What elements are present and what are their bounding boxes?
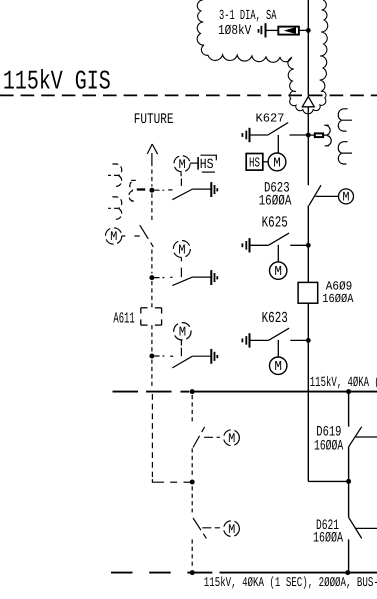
svg-text:HS: HS — [249, 156, 260, 171]
wire to voltage transformer — [308, 134, 327, 136]
disconnect (future feeder lower) — [193, 518, 206, 538]
node: K623 junction — [306, 338, 311, 343]
motor M for K625 — [270, 262, 287, 279]
bus: 115kV main bus — [192, 391, 377, 393]
node: D619/D621 mid node — [346, 479, 351, 484]
future transformer primary winding — [130, 180, 136, 190]
wire: main 115kV line from transformer — [307, 0, 309, 96]
bus: 115kV main bus (future dashed part) — [113, 391, 139, 393]
node: future transformer tap — [149, 188, 154, 193]
future transformer secondary winding 1 — [108, 164, 122, 175]
HS box K627 — [246, 154, 263, 171]
ground (future bay 2) — [210, 270, 212, 285]
ground: surge arrester earth — [265, 23, 267, 37]
motor M (future bay 1) — [174, 156, 190, 172]
svg-text:115kV GIS: 115kV GIS — [3, 68, 111, 98]
disconnect switch K625 — [250, 244, 269, 246]
disconnect (future, in riser) — [140, 225, 154, 247]
motor M (future riser disconnect) — [105, 228, 121, 244]
surge arrester SA 108kV — [278, 29, 308, 31]
svg-text:16ØØA: 16ØØA — [322, 292, 354, 306]
svg-text:115kV, 4ØKA (: 115kV, 4ØKA ( — [310, 375, 377, 391]
motor M for K623 — [270, 357, 287, 374]
svg-text:M: M — [273, 156, 281, 171]
node: K627 junction — [306, 133, 311, 138]
wire: main line crosses bus down to elbow — [307, 392, 309, 482]
disconnect switch K623 — [250, 339, 269, 341]
VT secondary winding 1 — [338, 109, 352, 120]
disconnect (future feeder upper) — [193, 426, 205, 447]
motor M for D623 — [339, 189, 354, 204]
svg-text:A611: A611 — [113, 309, 134, 327]
motor M (future feeder lower) — [224, 521, 240, 537]
svg-text:FUTURE: FUTURE — [134, 112, 174, 128]
svg-text:M: M — [179, 326, 186, 341]
svg-text:K627: K627 — [256, 112, 285, 126]
box A609 1600A — [298, 282, 318, 303]
svg-text:16ØØA: 16ØØA — [314, 439, 343, 455]
svg-text:115kV, 4ØKA (1 SEC), 2ØØØA, BU: 115kV, 4ØKA (1 SEC), 2ØØØA, BUS- — [204, 575, 377, 590]
breaker D621 — [348, 481, 350, 517]
node: future bay 2 tap — [149, 275, 154, 280]
GIS boundary dashed line — [0, 94, 377, 96]
svg-text:M: M — [110, 229, 117, 244]
VT secondary winding 2 — [338, 142, 352, 153]
wire: future dashed riser — [151, 170, 153, 187]
svg-text:HS: HS — [200, 157, 214, 173]
ground (future bay 1) — [210, 182, 212, 197]
node: bottom bus left tap — [190, 570, 195, 575]
node: future feeder mid node — [190, 480, 195, 485]
node: future feeder tap — [190, 389, 195, 394]
wire: main line D623 to K625 — [307, 206, 309, 283]
disconnect switch K627 — [250, 134, 268, 136]
delta winding symbol — [302, 97, 314, 107]
node: future bay 3 tap — [149, 354, 154, 359]
svg-text:16ØØA: 16ØØA — [259, 194, 292, 210]
wire: future riser below bus to elbow — [151, 394, 153, 477]
earthing switch K627 ground — [249, 128, 251, 142]
HS box (future, dashed) — [190, 162, 198, 164]
svg-text:K623: K623 — [262, 309, 288, 327]
box A611 (future breaker) — [141, 307, 148, 309]
future transformer secondary winding 2 — [108, 197, 122, 208]
svg-text:M: M — [179, 157, 186, 172]
breaker D619 — [348, 392, 350, 427]
svg-text:M: M — [342, 190, 349, 205]
earthing switch K625 ground — [249, 238, 251, 252]
svg-text:K625: K625 — [262, 214, 288, 232]
CT/link box — [315, 133, 323, 137]
svg-text:3-1 DIA, SA: 3-1 DIA, SA — [219, 8, 277, 24]
motor M for K627 — [268, 153, 286, 171]
node: D619 tap — [346, 389, 351, 394]
wire: future feeder riser upper — [191, 395, 193, 422]
earthing switch K623 ground — [249, 333, 251, 347]
motor M (future bay 2) — [173, 241, 190, 258]
svg-text:16ØØA: 16ØØA — [313, 531, 343, 547]
VT primary winding — [324, 125, 330, 135]
svg-text:M: M — [178, 243, 185, 258]
svg-text:M: M — [228, 431, 235, 446]
wire: main line below delta — [307, 107, 309, 185]
motor M (future feeder upper) — [224, 430, 240, 446]
bus: bottom 115kV bus — [187, 572, 212, 574]
svg-text:M: M — [274, 360, 282, 375]
cloud: existing transformer boundary — [197, 0, 328, 114]
breaker D623 — [309, 185, 321, 205]
earthing switch (future bay 3) — [155, 355, 165, 357]
node: K625 junction — [306, 243, 311, 248]
wire: future feeder riser lower — [191, 486, 193, 512]
ground (future bay 3) — [210, 349, 212, 364]
svg-text:M: M — [274, 265, 282, 280]
svg-text:M: M — [228, 522, 235, 537]
bus: bottom 115kV bus (future dashed part) — [111, 572, 133, 574]
node: bottom bus right tap — [345, 570, 350, 575]
motor M (future bay 3) — [174, 323, 191, 340]
svg-text:1Ø8kV: 1Ø8kV — [218, 24, 252, 39]
future line arrow — [147, 144, 152, 154]
earthing switch (future bay 2) — [155, 277, 165, 279]
node: arrester tap on main line — [306, 28, 311, 33]
earthing switch (future bay 1) — [155, 189, 165, 191]
wire: main line A609 to K623 — [307, 303, 309, 391]
